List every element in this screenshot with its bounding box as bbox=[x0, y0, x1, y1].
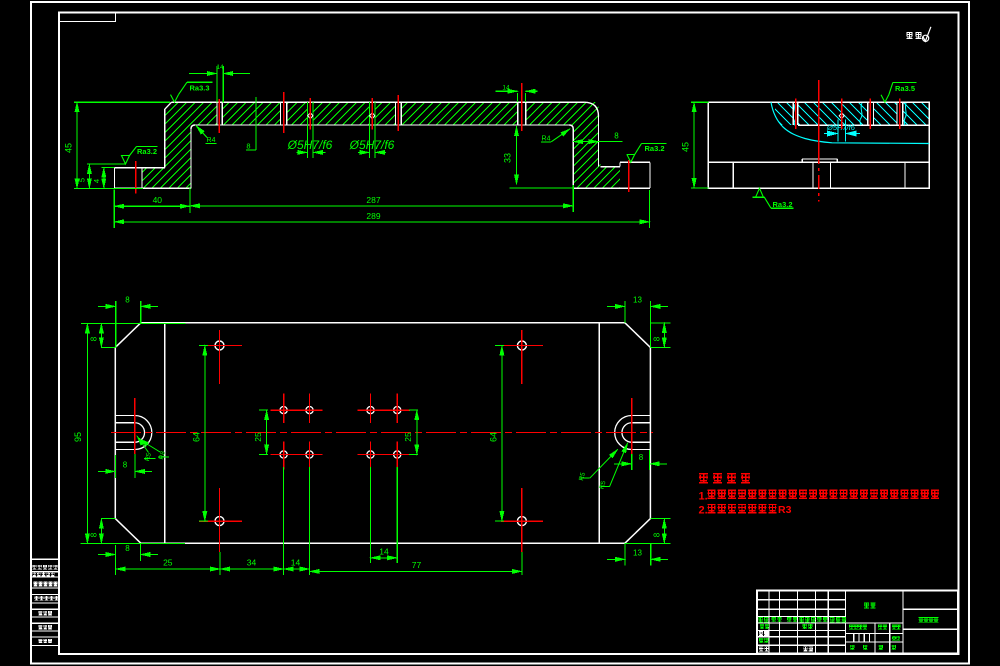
svg-text:287: 287 bbox=[366, 195, 380, 205]
svg-text:40: 40 bbox=[153, 195, 163, 205]
svg-text:Ø5H7/f6: Ø5H7/f6 bbox=[349, 138, 395, 152]
svg-text:25: 25 bbox=[163, 558, 173, 568]
svg-text:14: 14 bbox=[216, 64, 224, 71]
svg-text:Ø5H7/f6: Ø5H7/f6 bbox=[826, 123, 856, 132]
svg-text:8: 8 bbox=[123, 461, 128, 470]
svg-text:Ra3.2: Ra3.2 bbox=[644, 144, 664, 153]
svg-text:64: 64 bbox=[488, 432, 498, 442]
svg-text:R3: R3 bbox=[778, 504, 792, 516]
svg-text:1.: 1. bbox=[699, 491, 708, 503]
svg-text:Ra3.2: Ra3.2 bbox=[137, 147, 157, 156]
svg-text:8: 8 bbox=[653, 532, 662, 537]
svg-text:8: 8 bbox=[246, 142, 250, 151]
svg-text:45: 45 bbox=[64, 143, 74, 153]
svg-text:289: 289 bbox=[366, 211, 380, 221]
svg-text:14: 14 bbox=[379, 546, 389, 556]
svg-text:33: 33 bbox=[503, 153, 513, 163]
svg-text:45: 45 bbox=[681, 142, 691, 152]
svg-text:R4: R4 bbox=[542, 135, 551, 142]
svg-text:8: 8 bbox=[614, 132, 619, 141]
svg-text:25: 25 bbox=[403, 432, 413, 442]
svg-text:R4: R4 bbox=[207, 137, 216, 144]
svg-text:8: 8 bbox=[89, 336, 98, 341]
svg-text:Ra3.3: Ra3.3 bbox=[189, 84, 209, 93]
svg-text:8: 8 bbox=[639, 453, 644, 462]
svg-text:4: 4 bbox=[92, 179, 101, 183]
svg-text:Ra3.2: Ra3.2 bbox=[772, 200, 792, 209]
svg-text:8: 8 bbox=[125, 544, 130, 553]
svg-text:14: 14 bbox=[502, 85, 510, 92]
svg-text:13: 13 bbox=[633, 296, 642, 305]
svg-text:25: 25 bbox=[253, 432, 263, 442]
svg-text:34: 34 bbox=[247, 558, 257, 568]
svg-text:2.: 2. bbox=[699, 505, 708, 517]
svg-text:8: 8 bbox=[89, 532, 98, 537]
svg-text:5: 5 bbox=[78, 178, 87, 182]
svg-text:Ra3.5: Ra3.5 bbox=[895, 84, 915, 93]
svg-text:64: 64 bbox=[191, 432, 201, 442]
svg-text:Ø5H7/f6: Ø5H7/f6 bbox=[287, 138, 333, 152]
svg-text:77: 77 bbox=[412, 560, 422, 570]
svg-text:8: 8 bbox=[653, 336, 662, 341]
svg-text:95: 95 bbox=[73, 432, 83, 442]
svg-text:14: 14 bbox=[291, 558, 301, 568]
svg-text:8: 8 bbox=[125, 296, 130, 305]
svg-text:13: 13 bbox=[633, 549, 642, 558]
